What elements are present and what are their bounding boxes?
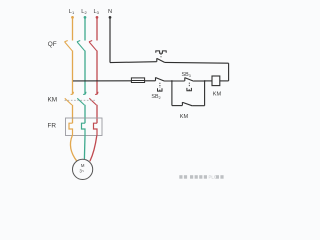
breaker QF pole 2 <box>77 41 85 51</box>
wire N to stop button <box>110 61 157 64</box>
pushbutton SB2 <box>156 77 165 81</box>
wire branch bottom right <box>192 105 204 107</box>
wire motor lead 2 <box>83 136 86 160</box>
overload relay FR heater 1 <box>69 123 73 135</box>
wire L2 phase mid <box>84 51 86 95</box>
svg-text:L3: L3 <box>94 9 100 15</box>
pushbutton SB3 actuator cap <box>187 88 192 91</box>
wire right rail drop <box>228 63 230 81</box>
wire L3 phase lower <box>96 105 98 123</box>
contactor KM pole 1 <box>65 92 74 105</box>
overload relay FR heater 3 <box>94 123 98 135</box>
node L2 terminal dot <box>84 16 87 19</box>
node L3 terminal dot <box>96 16 99 19</box>
wire stop button to right rail <box>165 61 229 64</box>
wire L1 phase upper <box>72 18 74 41</box>
wire branch up to node B <box>204 81 206 106</box>
wire branch down from node A <box>171 81 173 106</box>
contactor KM pole 3 <box>89 92 98 105</box>
svg-text:QF: QF <box>48 41 57 48</box>
overload relay FR box <box>66 118 103 136</box>
pushbutton SB1 actuator cap <box>156 51 166 53</box>
wire L2 phase upper <box>84 18 86 41</box>
node B junction <box>204 80 206 82</box>
pushbutton SB3 <box>185 77 194 81</box>
wire coil to node B <box>205 80 212 82</box>
svg-text:L1: L1 <box>69 9 75 15</box>
watermark <box>179 175 223 180</box>
overload relay FR heater 2 <box>82 123 86 135</box>
svg-text:3~: 3~ <box>79 168 84 173</box>
breaker QF pole 1 <box>64 41 72 51</box>
pushbutton SB2 actuator cap <box>158 88 163 91</box>
node A junction <box>171 80 173 82</box>
wire L1 phase lower <box>72 105 74 123</box>
node L1 terminal dot <box>71 16 74 19</box>
svg-text:KM: KM <box>213 92 222 98</box>
breaker QF pole 3 <box>89 41 97 51</box>
pushbutton SB3 actuator stem <box>188 83 190 88</box>
motor M <box>73 159 93 179</box>
pushbutton SB1 stop <box>157 58 165 62</box>
svg-text:N: N <box>108 9 112 15</box>
contactor KM pole 2 <box>77 92 86 105</box>
coil KM <box>212 76 220 86</box>
wire motor lead 3 <box>90 136 97 162</box>
wire rail to coil <box>220 80 229 82</box>
svg-text:FR: FR <box>48 123 57 130</box>
svg-text:L2: L2 <box>81 9 87 15</box>
wire motor lead 1 <box>71 136 77 162</box>
wire L3 phase upper <box>96 18 98 41</box>
wire L3 phase mid <box>96 51 98 95</box>
wire L1 phase mid <box>72 51 74 95</box>
wire branch bottom left <box>172 105 182 107</box>
contact KM aux <box>182 102 192 106</box>
pushbutton SB2 actuator stem <box>159 83 161 88</box>
wire L2 phase lower <box>84 105 86 123</box>
svg-text:PLC: PLC <box>209 175 217 180</box>
wire N drop <box>109 18 111 63</box>
svg-text:KM: KM <box>48 97 58 104</box>
wire SB2 to node A <box>165 80 185 82</box>
svg-text:KM: KM <box>180 114 189 120</box>
svg-text:M: M <box>81 163 85 168</box>
node N terminal dot <box>109 16 112 19</box>
fuse FU <box>73 80 155 82</box>
pushbutton SB1 actuator stem <box>160 54 162 58</box>
contactor KM linkage <box>65 99 97 101</box>
wire SB3 to node B <box>194 80 205 82</box>
